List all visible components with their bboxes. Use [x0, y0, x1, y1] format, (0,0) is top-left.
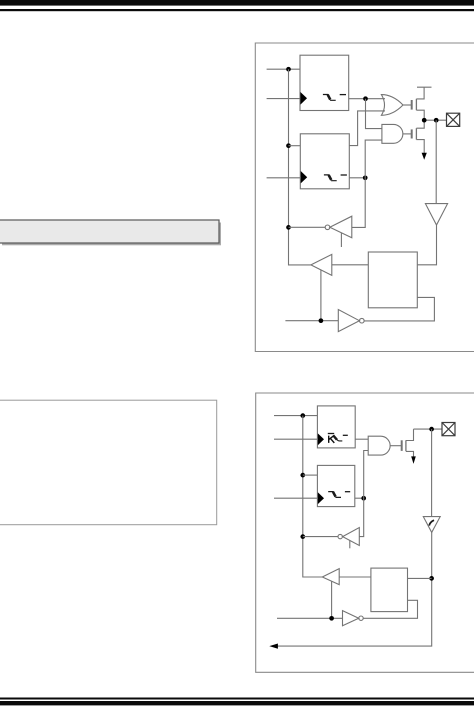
- ground arrow Q2: [422, 153, 427, 160]
- U10 K-bar symbol: [328, 434, 343, 441]
- page top rule thin: [0, 9, 474, 11]
- node input B1 junction: [300, 413, 305, 418]
- U1 minus label: [340, 94, 346, 96]
- U8 bubble: [325, 225, 330, 230]
- wire U15 input: [277, 617, 343, 619]
- U10 minus label: [343, 434, 348, 436]
- U1 hysteresis symbol: [323, 95, 336, 101]
- wire input B2: [274, 438, 318, 440]
- and-gate U12: [368, 436, 390, 455]
- ground arrow Q3: [411, 456, 416, 464]
- buffer U16 down: [423, 517, 440, 533]
- page top rule thick: [0, 0, 474, 6]
- U11 clock triangle: [318, 492, 324, 504]
- grey heading bar shadow: [2, 223, 221, 246]
- node U9 input junction: [319, 318, 324, 323]
- U9 bubble: [360, 318, 365, 323]
- comparator U1: [300, 55, 349, 110]
- U2 minus label: [341, 174, 347, 176]
- inverter U8: [330, 216, 352, 238]
- transistor Q1 gate bar: [411, 100, 413, 110]
- transistor Q2 drain: [416, 120, 424, 128]
- wire input A2: [267, 98, 300, 100]
- wire feedback down: [435, 120, 437, 203]
- transistor Q3 drain: [406, 429, 414, 440]
- delay block U17: [371, 568, 408, 612]
- wire U10 output to AND: [355, 438, 368, 440]
- wire U1 output to OR: [349, 98, 385, 100]
- wire input B1: [274, 415, 317, 417]
- wire rail to U2 input: [289, 145, 301, 147]
- node U1 output branch: [363, 96, 368, 101]
- figure placeholder box: [0, 400, 217, 525]
- wire U14 output: [303, 536, 338, 538]
- wire U9 output loop: [364, 297, 434, 321]
- node input A1 junction: [286, 67, 291, 72]
- node rail inverter junction: [286, 225, 291, 230]
- node rail to U2: [286, 143, 291, 148]
- output arrow: [269, 644, 278, 649]
- schematic 2 frame: [256, 393, 474, 672]
- wire U9 input: [285, 320, 338, 322]
- U2 clock triangle: [301, 171, 308, 183]
- wire left rail: [289, 69, 311, 265]
- transistor Q3 source: [406, 451, 414, 456]
- comparator U2: [300, 134, 349, 189]
- inverter U15: [343, 611, 359, 626]
- node pad branch 2: [429, 427, 434, 432]
- wire U2 output: [349, 177, 365, 179]
- U2 hysteresis symbol: [324, 175, 337, 181]
- transistor Q1 source: [416, 110, 424, 120]
- and-gate U4: [382, 124, 403, 143]
- wire input A3: [267, 177, 301, 179]
- inverter U9: [338, 310, 359, 332]
- delay block U6: [368, 252, 417, 308]
- U1 clock triangle: [300, 92, 307, 105]
- wire AND input and inverter input 2: [359, 451, 368, 537]
- U16 slope mark: [429, 520, 434, 525]
- inverter U14: [343, 528, 360, 546]
- pad X2: [442, 423, 455, 436]
- U10 K letter: [329, 436, 335, 443]
- or-gate U3: [381, 95, 403, 116]
- node pad branch: [434, 118, 439, 123]
- node U2 output branch: [363, 175, 368, 180]
- buffer U7 left: [311, 254, 332, 275]
- U11 minus label: [345, 491, 350, 493]
- U11 hysteresis symbol: [328, 492, 341, 498]
- node U11 output branch: [361, 496, 366, 501]
- wire block input: [332, 264, 369, 266]
- node drain junction: [422, 118, 427, 123]
- wire input B3: [274, 497, 318, 499]
- wire output node 2: [414, 428, 443, 430]
- node rail to U11: [300, 473, 305, 478]
- wire feedback down 2: [431, 429, 433, 516]
- U14 bubble: [338, 534, 342, 538]
- wire rail to U11 input: [303, 474, 318, 476]
- wire output node: [424, 119, 446, 121]
- wire U2 upper output to OR: [349, 111, 385, 146]
- wire AND output: [403, 133, 411, 135]
- node block branch 2: [429, 576, 434, 581]
- transistor Q3 channel: [405, 440, 407, 451]
- transistor Q1 drain to VCC: [416, 87, 431, 99]
- transistor Q1 channel: [415, 99, 417, 110]
- U10 clock triangle: [318, 433, 324, 445]
- wire U1 output to AND: [366, 99, 382, 129]
- transistor Q2 gate bar: [411, 129, 413, 138]
- comparator U11: [317, 465, 354, 506]
- wire AND input and inverter input: [352, 140, 382, 227]
- node U15 input junction: [329, 616, 334, 621]
- wire U13 enable stub: [331, 581, 333, 618]
- buffer U13 left: [322, 569, 339, 585]
- wire block input 2: [339, 576, 371, 578]
- wire U14 enable stub: [349, 540, 351, 548]
- node rail inverter junction 2: [300, 534, 305, 539]
- page bottom rule thin: [0, 698, 474, 700]
- wire input A1: [267, 68, 300, 70]
- wire OR output: [403, 104, 411, 106]
- grey heading bar: [0, 220, 219, 243]
- wire feedback rail 2: [278, 532, 432, 646]
- wire AND output 2: [390, 445, 401, 447]
- wire U8 output: [289, 226, 326, 228]
- wire left rail 2: [303, 416, 323, 577]
- wire feedback to block: [417, 225, 436, 265]
- wire block to rail 2: [408, 577, 432, 579]
- transistor Q2 source: [416, 140, 424, 154]
- wire U11 output: [355, 497, 364, 499]
- page bottom rule thick: [0, 701, 474, 705]
- wire U8 enable stub: [340, 233, 342, 247]
- pad X1: [447, 113, 460, 126]
- transistor Q2 channel: [415, 128, 417, 139]
- U15 bubble: [359, 616, 363, 620]
- transistor Q3 gate bar: [401, 440, 403, 451]
- buffer U5 down: [425, 204, 447, 225]
- wire U15 output loop: [363, 600, 417, 618]
- wire U7 enable stub: [320, 270, 322, 321]
- comparator U10: [317, 406, 355, 448]
- schematic 1 frame: [255, 43, 474, 352]
